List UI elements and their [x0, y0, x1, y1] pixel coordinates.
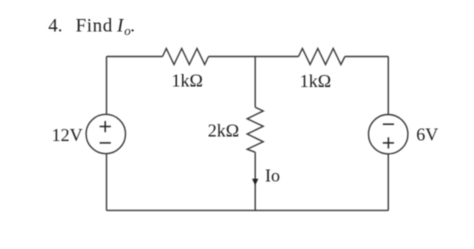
- svg-text:.: .: [130, 15, 135, 36]
- wire: right branch upper: [387, 57, 389, 115]
- plus sign of V2: [383, 137, 394, 148]
- svg-text:2kΩ: 2kΩ: [208, 120, 239, 140]
- title: "4. Find Io.": [48, 15, 135, 38]
- wire: left branch lower: [106, 154, 108, 211]
- svg-text:Find: Find: [76, 15, 113, 36]
- current arrow Io: [252, 179, 258, 186]
- svg-text:Io: Io: [265, 165, 280, 185]
- resistor R2 1k (top-right): [299, 49, 345, 65]
- wire: top wire right segment: [345, 56, 388, 58]
- wire: bottom wire: [107, 209, 389, 211]
- svg-text:6V: 6V: [416, 124, 438, 144]
- resistor R3 2k (middle vertical): [247, 107, 263, 152]
- wire: top wire left segment: [107, 56, 163, 58]
- resistor R1 1k (top-left): [163, 49, 209, 65]
- svg-text:12V: 12V: [52, 125, 83, 145]
- wire: middle branch lower: [254, 152, 256, 210]
- plus sign of V1: [100, 121, 111, 132]
- svg-text:1kΩ: 1kΩ: [300, 71, 331, 91]
- wire: middle branch upper: [254, 57, 256, 108]
- minus sign of V1: [100, 142, 111, 144]
- wire: left branch upper: [106, 57, 108, 115]
- voltage source V1 12V: [86, 114, 125, 153]
- svg-text:4.: 4.: [48, 15, 62, 36]
- wire: right branch lower: [387, 154, 389, 211]
- svg-text:1kΩ: 1kΩ: [172, 71, 203, 91]
- minus sign of V2: [383, 123, 394, 125]
- voltage source V2 6V: [369, 115, 408, 154]
- wire: top wire middle segment: [209, 56, 299, 58]
